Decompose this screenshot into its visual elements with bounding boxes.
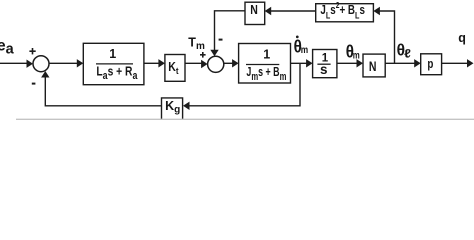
wire Kt to summer2 xyxy=(185,62,202,64)
block Kg xyxy=(162,98,183,119)
wire N to p xyxy=(385,62,415,64)
svg-text:N: N xyxy=(369,58,377,74)
block p xyxy=(421,54,442,75)
svg-text:N: N xyxy=(250,2,258,17)
arrowhead into Kt xyxy=(158,59,165,67)
sign minus summer2 xyxy=(219,39,223,41)
summer 1 xyxy=(33,56,49,72)
arrowhead into Kg xyxy=(183,102,190,110)
block N top xyxy=(245,2,265,24)
faint scan line along bottom edge xyxy=(16,118,474,120)
svg-text:m: m xyxy=(301,44,308,56)
summer 2 xyxy=(208,56,224,72)
arrowhead into p xyxy=(414,59,421,67)
wire top N to summer2 top xyxy=(215,11,246,51)
sign plus summer1 xyxy=(29,48,35,54)
wire input ea to summer1 xyxy=(0,62,28,64)
svg-text:1: 1 xyxy=(263,47,270,61)
wire summer2 to block G2 xyxy=(224,62,234,64)
svg-text:s: s xyxy=(320,62,328,77)
arrowhead into JL block xyxy=(373,7,380,15)
svg-text:1: 1 xyxy=(109,47,116,61)
block JL: JL s^2 + BL s xyxy=(316,4,374,22)
block G1: 1/(La s + Ra) xyxy=(83,43,144,84)
svg-text:q: q xyxy=(458,31,466,45)
block G2: 1/(Jm s + Bm) xyxy=(239,44,291,84)
arrowhead into summer1 xyxy=(27,60,34,68)
arrowhead into top N xyxy=(265,7,272,15)
wire summer1 to block G1 xyxy=(49,62,78,64)
wire JL block to top N xyxy=(270,10,316,12)
sign plus summer2 xyxy=(200,52,206,58)
block 1/s xyxy=(313,50,337,78)
arrowhead down into summer2 top xyxy=(210,50,218,57)
arrowhead into 1/s xyxy=(306,59,313,67)
wire p to output q xyxy=(442,62,468,64)
svg-text:m: m xyxy=(353,49,360,61)
wire G2 to 1/s block xyxy=(291,62,308,64)
arrowhead into summer2 xyxy=(201,60,208,68)
svg-text:ℓ: ℓ xyxy=(404,46,411,60)
wire G1 to Kt xyxy=(144,62,160,64)
block N main xyxy=(363,54,385,77)
sign minus summer1 xyxy=(32,83,36,85)
arrowhead into G2 xyxy=(232,59,239,67)
wire takeoff theta-l up to JL block xyxy=(379,11,395,63)
arrowhead output q xyxy=(467,59,474,67)
wire 1/s to N xyxy=(337,62,358,64)
block Kt xyxy=(165,55,185,82)
svg-text:p: p xyxy=(427,57,433,71)
wire takeoff thetadot-m down to Kg xyxy=(189,63,301,106)
arrowhead into N xyxy=(357,59,364,67)
arrowhead into G1 xyxy=(77,59,84,67)
wire Kg to summer1 bottom xyxy=(45,77,161,106)
arrowhead up into summer1 bottom xyxy=(41,71,49,78)
